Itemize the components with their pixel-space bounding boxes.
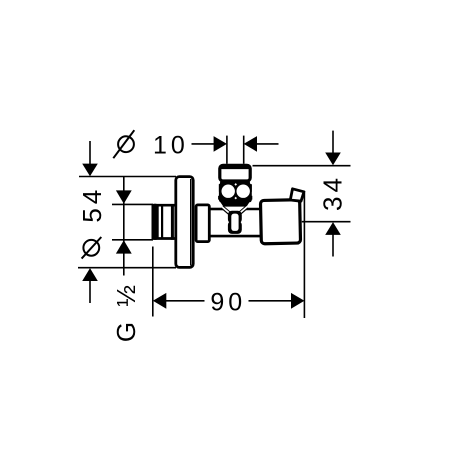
block junction notch left xyxy=(217,181,220,184)
dim G1/2 lower arrow xyxy=(116,240,132,253)
funnel wing left xyxy=(222,207,230,214)
dim Ø10 right arrow xyxy=(244,136,257,152)
dim Ø54 upper arrow xyxy=(82,141,98,176)
block bottom diamond xyxy=(234,197,237,200)
dim 34 lower arrow xyxy=(325,222,341,256)
inlet pipe end line xyxy=(171,204,174,240)
label Ø54 diameter symbol xyxy=(82,237,102,259)
cartridge block xyxy=(219,182,252,203)
dim 34 upper arrow xyxy=(325,131,341,166)
block left circle xyxy=(222,185,235,198)
nut xyxy=(196,205,209,242)
outlet tab xyxy=(290,189,304,201)
body tube top edge left segment xyxy=(209,208,224,211)
dim Ø54 top extension line xyxy=(79,176,176,178)
svg-text:G ½: G ½ xyxy=(111,281,141,342)
escutcheon flange xyxy=(176,177,193,268)
dim Ø10 right line xyxy=(256,143,279,145)
funnel wing right xyxy=(239,207,247,214)
inlet pipe bottom edge xyxy=(152,237,176,240)
dim 90 right arrow xyxy=(249,293,305,309)
body tube bottom edge xyxy=(209,235,263,238)
dim Ø10 left extension line xyxy=(226,136,228,164)
flange inner line xyxy=(190,179,192,266)
cartridge funnel xyxy=(220,201,251,207)
body tube top edge right segment xyxy=(246,208,263,211)
inlet thread line xyxy=(161,205,163,239)
dim G1/2 upper arrow xyxy=(116,190,132,203)
block top diamond xyxy=(234,183,237,186)
dim 90 left arrow xyxy=(153,293,205,309)
block junction notch right xyxy=(250,181,253,184)
dim Ø54 lower arrow xyxy=(82,268,98,303)
dim Ø10 left arrow xyxy=(214,136,227,152)
dim Ø10 right extension line xyxy=(243,136,245,164)
svg-text:90: 90 xyxy=(210,289,246,317)
outlet square xyxy=(260,200,300,244)
dim 90 left extension line xyxy=(152,247,154,317)
dim G1/2 lower extension line xyxy=(112,239,153,241)
block right circle xyxy=(237,185,250,198)
inlet thread bar xyxy=(152,204,159,240)
drain screw slot channel xyxy=(231,214,238,231)
cartridge handle xyxy=(220,165,250,181)
dim Ø10 left line xyxy=(192,143,216,145)
dim G1/2 upper extension line xyxy=(112,203,153,205)
dim Ø54 bottom extension line xyxy=(78,267,176,269)
dim 90 right extension line xyxy=(303,193,305,318)
drain screw slot outer xyxy=(228,211,242,234)
handle top band xyxy=(221,166,252,169)
dim 34 top extension line xyxy=(253,165,351,167)
svg-text:10: 10 xyxy=(153,132,189,160)
svg-text:54: 54 xyxy=(77,186,107,223)
label Ø10 diameter symbol xyxy=(113,130,134,158)
cartridge block flare xyxy=(218,196,252,200)
dim G1/2 dimension line xyxy=(123,177,125,276)
inlet pipe top edge xyxy=(152,204,176,207)
svg-text:34: 34 xyxy=(318,174,348,211)
dim 34 bottom extension line xyxy=(302,221,351,223)
